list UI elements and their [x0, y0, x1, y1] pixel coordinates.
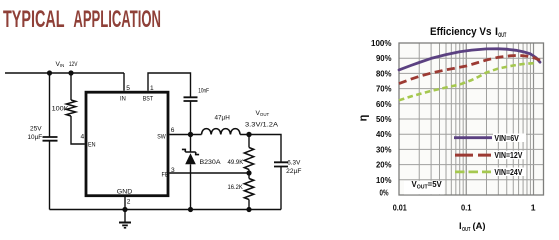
- resistor R1 100K: [66, 100, 75, 116]
- capacitor C1 25V 10uF: [43, 137, 58, 141]
- svg-text:VIN=24V: VIN=24V: [494, 168, 523, 177]
- svg-text:OUT: OUT: [462, 227, 471, 233]
- wire: bottom ground rail: [50, 209, 282, 211]
- capacitor C3 22uF: [274, 162, 288, 166]
- svg-text:0%: 0%: [380, 187, 389, 197]
- resistor R3 16.2K: [244, 179, 253, 200]
- svg-text:6: 6: [171, 127, 175, 134]
- chart: minor log gridlines: [419, 43, 530, 195]
- svg-text:VOUT=5V: VOUT=5V: [412, 180, 443, 190]
- svg-text:(A): (A): [473, 220, 486, 231]
- legend sample VIN=6V: [454, 136, 492, 139]
- wire: R1 top lead: [70, 73, 72, 100]
- svg-text:0.1: 0.1: [461, 203, 472, 213]
- wire: R1 bottom to EN pin: [71, 116, 85, 144]
- svg-text:EN: EN: [88, 142, 96, 149]
- svg-text:FB: FB: [162, 172, 169, 179]
- inductor L1 47uH: [202, 129, 241, 135]
- svg-text:1: 1: [531, 203, 536, 213]
- efficiency curve VIN=24V: [399, 63, 536, 100]
- svg-text:OUT: OUT: [498, 32, 506, 39]
- wire: R2 leads: [248, 135, 250, 179]
- ground symbol: [119, 223, 131, 228]
- wire: SW pin stub: [169, 134, 201, 136]
- svg-text:1: 1: [150, 85, 154, 92]
- node: VOUT junction: [246, 132, 251, 137]
- svg-text:B230A: B230A: [200, 159, 222, 166]
- node: SW junction: [188, 132, 193, 137]
- svg-text:VIN=12V: VIN=12V: [494, 151, 523, 160]
- svg-text:0.01: 0.01: [393, 203, 407, 213]
- svg-text:25V: 25V: [30, 125, 42, 132]
- node: VIN at R1: [68, 70, 73, 75]
- wire: R3 bottom lead: [248, 200, 250, 210]
- wire: VIN top rail: [5, 72, 124, 74]
- capacitor C2 10nF: [184, 97, 198, 101]
- svg-text:4: 4: [81, 134, 85, 141]
- svg-text:40%: 40%: [376, 129, 392, 139]
- svg-text:12V: 12V: [69, 61, 78, 68]
- svg-text:10µF: 10µF: [28, 134, 43, 141]
- node: VIN at C1: [47, 70, 52, 75]
- node: R3 at rail: [246, 207, 251, 212]
- node: GND rail at pin 2: [122, 207, 127, 212]
- svg-text:50%: 50%: [376, 114, 392, 124]
- svg-text:6.3V: 6.3V: [287, 159, 301, 166]
- IC U1: [86, 92, 168, 196]
- wire: IN pin drop: [123, 73, 125, 91]
- wire: diode anode to ground rail: [190, 164, 192, 209]
- wire: C1 top lead: [49, 73, 51, 137]
- svg-text:BST: BST: [143, 95, 154, 102]
- svg-text:VOUT: VOUT: [256, 110, 270, 117]
- svg-text:TYPICAL: TYPICAL: [3, 6, 65, 33]
- svg-text:90%: 90%: [376, 53, 392, 63]
- svg-text:10%: 10%: [376, 175, 392, 185]
- svg-text:49.9K: 49.9K: [228, 159, 244, 166]
- wire: C3 bottom lead: [280, 167, 282, 210]
- wire: FB net from pin 3 to divider: [169, 172, 249, 174]
- svg-text:80%: 80%: [376, 68, 392, 78]
- legend sample VIN=24V: [455, 170, 491, 173]
- svg-text:IN: IN: [120, 95, 126, 102]
- efficiency curve VIN=12V: [399, 55, 540, 83]
- svg-text:20%: 20%: [376, 160, 392, 170]
- svg-text:VIN=6V: VIN=6V: [494, 134, 519, 143]
- svg-text:VIN: VIN: [56, 61, 65, 68]
- svg-text:60%: 60%: [376, 99, 392, 109]
- svg-text:Efficiency Vs: Efficiency Vs: [430, 26, 492, 38]
- svg-text:70%: 70%: [376, 84, 392, 94]
- svg-text:10nF: 10nF: [198, 87, 209, 94]
- resistor R2 49.9K: [244, 148, 253, 170]
- svg-text:GND: GND: [117, 188, 133, 195]
- svg-text:η: η: [358, 114, 370, 121]
- svg-text:SW: SW: [157, 133, 166, 140]
- wire: C2 bottom to SW node: [190, 101, 192, 134]
- chart: plot border: [399, 43, 544, 195]
- svg-text:47µH: 47µH: [215, 115, 231, 122]
- legend sample VIN=12V: [455, 154, 491, 157]
- efficiency curve VIN=6V: [399, 49, 540, 70]
- svg-text:22µF: 22µF: [286, 168, 301, 175]
- svg-text:5: 5: [126, 85, 130, 92]
- diode D1 B230A (schottky): [182, 149, 199, 164]
- svg-text:2: 2: [127, 198, 131, 205]
- svg-text:30%: 30%: [376, 144, 392, 154]
- svg-text:3: 3: [171, 167, 175, 174]
- node: FB divider junction: [246, 170, 251, 175]
- svg-text:APPLICATION: APPLICATION: [73, 6, 161, 33]
- svg-text:3.3V/1.2A: 3.3V/1.2A: [245, 121, 279, 128]
- chart: plot background: [399, 43, 544, 195]
- wire: GND pin stub: [124, 197, 126, 223]
- chart: major vertical gridlines: [466, 43, 533, 195]
- wire: inductor output to VOUT node and C3: [240, 135, 281, 163]
- chart: horizontal gridlines: [399, 58, 544, 180]
- legend text backgrounds: [404, 134, 526, 195]
- wire: BST to C2: [148, 73, 191, 97]
- node: diode anode at rail: [188, 207, 193, 212]
- svg-text:16.2K: 16.2K: [228, 184, 244, 191]
- svg-text:100%: 100%: [371, 38, 392, 48]
- svg-text:100K: 100K: [52, 106, 70, 113]
- wire: C1 bottom lead: [49, 141, 51, 210]
- wire: SW node to diode cathode: [190, 135, 192, 153]
